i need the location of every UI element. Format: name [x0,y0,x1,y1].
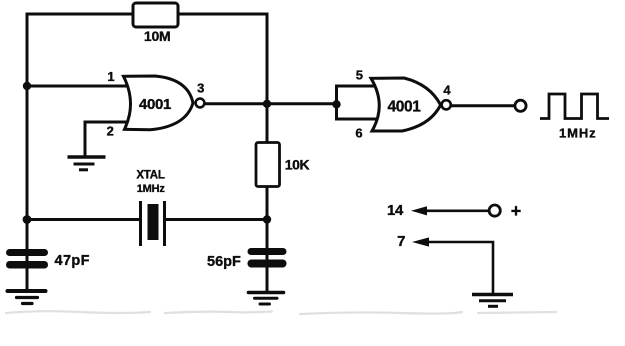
svg-text:1MHz: 1MHz [137,183,166,195]
svg-text:3: 3 [197,80,204,95]
svg-text:4001: 4001 [388,99,422,116]
svg-text:1: 1 [107,69,114,84]
svg-text:47pF: 47pF [55,253,90,269]
svg-text:4: 4 [443,83,451,98]
svg-text:10M: 10M [144,28,171,44]
svg-text:+: + [511,201,522,221]
svg-text:6: 6 [355,125,362,140]
svg-text:56pF: 56pF [207,254,241,270]
svg-text:14: 14 [387,202,404,219]
svg-text:XTAL: XTAL [136,170,165,182]
svg-text:4001: 4001 [139,96,171,113]
svg-text:5: 5 [356,68,363,83]
svg-text:2: 2 [107,124,114,139]
svg-text:1MHz: 1MHz [559,126,597,141]
svg-text:10K: 10K [285,156,310,172]
svg-text:7: 7 [397,233,405,250]
